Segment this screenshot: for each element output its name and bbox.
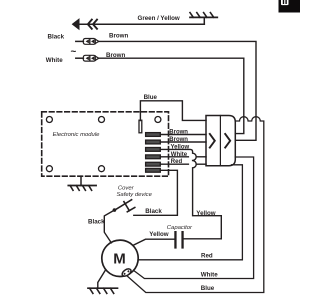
terminal bar row4 [146, 155, 161, 159]
wire blue from connector with hops to right and bottom [126, 117, 264, 293]
svg-text:Electronic module: Electronic module [53, 132, 101, 138]
connector arrow (male spade) on earth wire [73, 19, 80, 29]
wire yellow module with hops going down [160, 149, 221, 238]
svg-text:Yellow: Yellow [149, 231, 168, 238]
module hole circle top-right [155, 117, 161, 123]
wire brown row3 to right and down [99, 58, 244, 133]
electronic module dashed box [42, 112, 169, 176]
wire brown row2 to right and down [99, 41, 256, 140]
wire motor to ground [98, 271, 105, 289]
thermal protector oval [121, 267, 132, 277]
svg-text:Brown: Brown [169, 137, 188, 143]
svg-text:Yellow: Yellow [171, 145, 190, 151]
switch lever crossbar [124, 202, 129, 211]
svg-text:White: White [171, 152, 188, 158]
module hole circle top-mid [99, 117, 105, 123]
wire red from connector down to motor [138, 165, 242, 260]
capacitor plate left [174, 231, 176, 249]
svg-text:Capacitor: Capacitor [167, 225, 193, 231]
wire brown1 module to connector [160, 134, 206, 136]
switch right contact [127, 208, 135, 212]
svg-text:White: White [201, 272, 218, 279]
chevron pin left [210, 134, 215, 148]
terminal bar row6 [146, 168, 161, 172]
motor circle [102, 240, 138, 276]
connector block [206, 116, 235, 166]
wire blue from module to connector [140, 101, 206, 121]
svg-text:~: ~ [71, 47, 77, 58]
module hole circle bottom-left [46, 166, 52, 172]
svg-text:Red: Red [171, 159, 183, 165]
switch lever [115, 200, 132, 211]
svg-text:White: White [46, 57, 63, 64]
svg-text:Safety device: Safety device [117, 192, 153, 198]
svg-text:Yellow: Yellow [196, 210, 215, 217]
ground under motor [88, 287, 118, 289]
wire yellow motor to capacitor [133, 239, 174, 245]
terminal bar row3 [146, 148, 161, 152]
ground under module [80, 176, 82, 185]
svg-text:Black: Black [48, 34, 65, 41]
module hole circle top-left [46, 117, 52, 123]
wire brown2 module to connector [160, 141, 206, 143]
chevron pin right [225, 134, 230, 148]
terminal bar row2 [146, 140, 161, 144]
svg-text:Black: Black [88, 219, 105, 226]
capacitor plate right [181, 231, 183, 249]
svg-text:Red: Red [201, 253, 213, 260]
switch contact dot [113, 208, 117, 212]
wire white row stub [76, 57, 84, 59]
connector double chevron on earth wire [88, 20, 92, 29]
wire white from connector down to motor [133, 157, 253, 279]
watermark logo top right [279, 0, 301, 13]
terminal blue (vertical bar) [139, 120, 142, 133]
earth symbol top right [203, 17, 205, 24]
svg-text:Brown: Brown [109, 32, 128, 39]
module hole circle bottom-mid [99, 166, 105, 172]
wire red module to connector (gap under hop) [160, 163, 188, 165]
terminal bar row1 [146, 133, 161, 137]
wire black module row6 down to switch [134, 170, 178, 215]
connector capsule row3 [83, 55, 99, 61]
svg-text:Cover: Cover [118, 185, 135, 191]
svg-text:Green / Yellow: Green / Yellow [138, 15, 180, 22]
connector capsule row2 [83, 39, 99, 45]
wire black row stub [76, 40, 84, 42]
wire black switch to motor [104, 210, 114, 243]
wire green/yellow earth line [78, 23, 204, 25]
svg-text:Blue: Blue [201, 285, 215, 292]
svg-text:M: M [113, 251, 126, 268]
terminal bar row5 [146, 162, 161, 166]
svg-text:Brown: Brown [169, 130, 188, 136]
svg-text:Black: Black [145, 208, 162, 215]
wire white module to connector (gap under hop) [160, 156, 188, 158]
